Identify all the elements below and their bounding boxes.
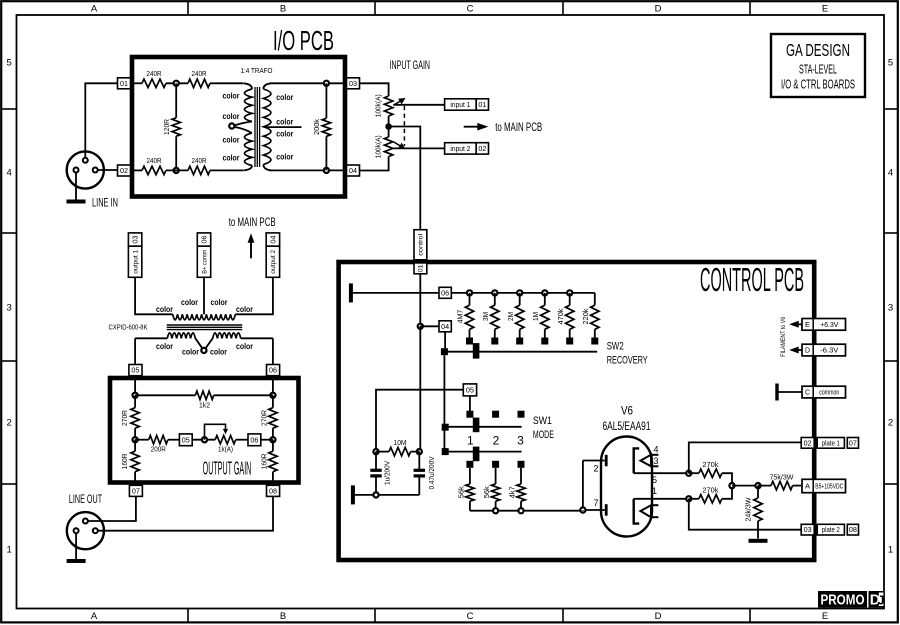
svg-text:color: color	[276, 152, 294, 162]
wire secondary top to 03	[270, 82, 347, 84]
svg-text:color: color	[276, 129, 294, 139]
wire 08 to LINE OUT	[98, 496, 273, 530]
svg-text:1k(A): 1k(A)	[218, 445, 233, 454]
svg-text:06: 06	[269, 368, 277, 375]
wire secondary bottom to 04	[270, 169, 347, 171]
SW1 position label 1	[467, 433, 474, 447]
color label t3	[211, 297, 229, 307]
wire 200R to 05box	[168, 439, 180, 441]
svg-text:4: 4	[7, 167, 12, 178]
svg-text:04: 04	[441, 324, 449, 331]
svg-text:160R: 160R	[259, 453, 268, 470]
switch SW1 row2 line	[444, 451, 521, 453]
connector 07	[129, 485, 142, 496]
svg-text:220k: 220k	[581, 308, 590, 324]
PROMO DJ logo	[818, 591, 885, 609]
svg-text:E: E	[822, 4, 828, 15]
connector D -6.3V	[789, 344, 845, 356]
svg-text:color: color	[236, 304, 254, 314]
color label 4	[223, 153, 241, 163]
wire pots to control	[389, 127, 421, 230]
color label 3	[223, 134, 241, 144]
node og top-right	[270, 393, 275, 398]
color label 7	[276, 129, 294, 139]
transformer T2 label	[109, 322, 148, 331]
tube V6 envelope	[601, 437, 652, 537]
svg-text:B: B	[280, 4, 286, 15]
svg-text:03: 03	[349, 81, 357, 88]
resistor 240R (4)	[188, 156, 210, 174]
svg-text:4k7: 4k7	[507, 486, 516, 498]
svg-text:08: 08	[849, 527, 857, 534]
tube V6 diode bottom chevron	[641, 505, 659, 517]
FILAMENT to V6 label	[780, 316, 787, 356]
svg-text:270k: 270k	[702, 460, 718, 469]
svg-text:color: color	[211, 297, 229, 307]
svg-text:200k: 200k	[312, 119, 321, 135]
CONTROL PCB board outline	[339, 262, 815, 560]
svg-text:270R: 270R	[120, 409, 129, 426]
resistor 270k (bottom)	[689, 486, 732, 503]
node rail 56k2	[493, 508, 498, 513]
transformer T2 primary winding	[173, 314, 236, 320]
svg-text:-6.3V: -6.3V	[820, 348, 838, 355]
wire 01 down	[419, 274, 421, 327]
switch SW1 contact A2	[492, 411, 499, 418]
resistor 10M	[389, 438, 411, 456]
gang dashed link	[403, 106, 405, 146]
svg-text:100k(A): 100k(A)	[375, 94, 382, 117]
switch SW1 contact B3	[518, 461, 525, 468]
wire 120R top	[175, 83, 177, 118]
svg-text:plate 2: plate 2	[822, 527, 840, 534]
LINE OUT label	[69, 494, 102, 506]
connector 04 (control)	[439, 321, 451, 332]
node T2 secondary center tap	[201, 348, 206, 353]
svg-text:7: 7	[593, 498, 598, 508]
resistor 75k/3W	[758, 473, 801, 490]
wire pot P2 to 04	[360, 157, 389, 171]
to MAIN PCB label (right)	[495, 122, 542, 134]
connector 05 (output gain)	[129, 365, 142, 376]
transformer T1 label	[241, 66, 273, 75]
svg-text:LINE OUT: LINE OUT	[69, 494, 102, 506]
resistor 270k (top)	[689, 460, 732, 486]
svg-text:2: 2	[7, 417, 12, 428]
connector A B5+105VDC	[802, 479, 846, 492]
switch SW1 contact B1	[466, 461, 473, 468]
svg-text:A: A	[91, 4, 98, 15]
svg-text:240R: 240R	[147, 69, 162, 78]
connector input 2	[445, 143, 489, 154]
svg-text:4: 4	[888, 167, 893, 178]
wire R2 to T1 primary top	[210, 82, 244, 84]
wire T2 sec left to 05	[134, 338, 136, 364]
connector 02	[118, 165, 131, 176]
svg-text:2: 2	[493, 433, 500, 447]
SW1 position label 2	[493, 433, 500, 447]
wire LINE IN pin2 to 01	[85, 83, 117, 157]
resistor 1k2	[195, 391, 213, 409]
svg-text:color: color	[181, 297, 199, 307]
wire og top rail	[135, 394, 273, 396]
XLR connector LINE IN	[67, 151, 104, 188]
connector 05 (inner)	[179, 434, 192, 446]
svg-text:05: 05	[131, 368, 139, 375]
wire recovery rail	[451, 292, 595, 294]
svg-text:1:4 TRAFO: 1:4 TRAFO	[241, 66, 273, 75]
svg-text:SW1: SW1	[533, 415, 552, 427]
color label b3	[210, 347, 228, 357]
svg-text:56k: 56k	[482, 486, 491, 498]
wire 01 to R1	[131, 82, 143, 84]
potentiometer 1k(A)	[205, 424, 236, 453]
svg-text:05: 05	[466, 387, 474, 394]
svg-text:C: C	[467, 611, 474, 622]
color label 8	[276, 152, 294, 162]
resistor 56k (1)	[457, 468, 475, 511]
node plate2 junction	[686, 496, 691, 501]
transformer T1 primary winding	[235, 83, 253, 170]
resistor 4M7	[456, 293, 474, 338]
resistor 120R	[162, 118, 180, 136]
capacitor 1u/200V	[370, 452, 391, 495]
svg-text:color: color	[156, 304, 174, 314]
svg-text:1: 1	[7, 544, 12, 555]
svg-text:4M7: 4M7	[456, 310, 465, 324]
svg-text:B+ comm: B+ comm	[201, 250, 208, 274]
switch SW2 pole square	[441, 348, 448, 355]
svg-text:1u/200V: 1u/200V	[384, 461, 391, 485]
resistor 270R right	[259, 395, 277, 439]
tube V6 anode bracket top	[634, 448, 640, 473]
connector 04	[347, 165, 360, 176]
wire output1 to T2	[135, 277, 173, 314]
title block GA DESIGN	[771, 34, 865, 97]
node rail 1M	[542, 290, 547, 295]
resistor 24k/3W	[746, 486, 763, 539]
potentiometer 100k(A) P2	[375, 135, 405, 158]
XLR connector LINE OUT	[67, 512, 104, 549]
node rail 4M7	[467, 290, 472, 295]
I/O PCB title	[273, 25, 334, 56]
connector 03	[347, 78, 360, 89]
svg-text:07: 07	[132, 488, 140, 495]
svg-text:input 2: input 2	[450, 146, 470, 153]
connector 05 (control)	[463, 384, 476, 396]
node rail 4k7	[518, 508, 523, 513]
svg-text:02: 02	[120, 168, 128, 175]
svg-text:V6: V6	[621, 406, 633, 418]
svg-text:06: 06	[250, 437, 258, 444]
resistor 200R	[149, 436, 168, 454]
node pot junction	[385, 123, 392, 130]
wire 10M right stub	[411, 451, 420, 453]
switch SW2 contact 4M7	[466, 338, 473, 345]
connector 03 plate 2 08	[801, 524, 858, 535]
switch SW1 row1 line	[444, 426, 521, 428]
svg-text:C: C	[805, 390, 810, 397]
svg-text:270k: 270k	[702, 486, 718, 495]
wire output2 to T2	[235, 277, 273, 314]
svg-text:color: color	[223, 134, 241, 144]
resistor 4k7	[507, 468, 525, 511]
color label b1	[156, 341, 174, 351]
svg-text:1k2: 1k2	[199, 400, 210, 409]
svg-text:1: 1	[652, 486, 657, 496]
color label 2	[223, 111, 241, 121]
wire 06box to mid-right	[261, 439, 273, 441]
wire B+comm to T2 tap	[203, 277, 205, 314]
svg-text:B: B	[280, 611, 286, 622]
svg-text:LINE IN: LINE IN	[92, 198, 118, 210]
color label b2	[182, 347, 200, 357]
svg-text:E: E	[822, 611, 828, 622]
node top-left junction	[174, 81, 179, 86]
svg-text:3M: 3M	[481, 312, 490, 321]
svg-text:SW2: SW2	[607, 340, 624, 352]
svg-text:CONTROL PCB: CONTROL PCB	[700, 261, 804, 298]
svg-text:75k/3W: 75k/3W	[770, 473, 795, 482]
ground 24k	[749, 539, 768, 543]
color label t2	[181, 297, 199, 307]
wire 270k join to B5 node	[732, 485, 758, 487]
svg-text:3: 3	[517, 433, 524, 447]
svg-text:240R: 240R	[192, 69, 207, 78]
svg-text:color: color	[223, 91, 241, 101]
node 10M left	[373, 449, 378, 454]
switch SW1 row2 bridge	[473, 447, 480, 462]
svg-text:2: 2	[593, 464, 598, 474]
switch SW1 contact A3	[518, 411, 525, 418]
svg-text:FILAMENT to V6: FILAMENT to V6	[780, 316, 787, 356]
connector input 1	[445, 99, 489, 110]
color label b4	[236, 341, 254, 351]
potentiometer 100k(A) P1	[375, 94, 405, 117]
wire 10M left stub	[376, 451, 389, 453]
resistor 200k	[312, 83, 331, 170]
svg-text:240R: 240R	[192, 156, 207, 165]
svg-text:4: 4	[653, 445, 658, 455]
switch SW2 wiper bridge	[473, 343, 480, 359]
wire 05 feed	[376, 390, 463, 452]
wire cathodes link	[582, 461, 584, 511]
color label 1	[223, 91, 241, 101]
to MAIN PCB arrow (right)	[464, 123, 489, 131]
svg-text:color: color	[210, 347, 228, 357]
ground caps	[351, 485, 419, 504]
node og mid-right	[270, 437, 275, 442]
OUTPUT GAIN board outline	[110, 378, 299, 483]
svg-text:5: 5	[7, 57, 12, 68]
wire 06 into board	[272, 376, 274, 396]
transformer T1 secondary winding	[263, 83, 271, 170]
svg-text:200R: 200R	[151, 445, 166, 454]
svg-text:C: C	[467, 4, 474, 15]
switch SW2 contact 470k	[566, 338, 573, 345]
svg-text:01: 01	[478, 102, 486, 109]
transformer T2 core	[167, 325, 243, 330]
node 04 junction	[418, 324, 423, 329]
svg-text:D: D	[655, 611, 662, 622]
pin 4 label	[653, 445, 658, 455]
svg-text:to MAIN PCB: to MAIN PCB	[229, 217, 276, 229]
svg-text:3: 3	[7, 302, 12, 313]
svg-text:5: 5	[888, 57, 893, 68]
to MAIN PCB up arrow	[248, 233, 255, 258]
wire control to 10M node	[419, 326, 421, 451]
V6 label	[603, 406, 651, 433]
svg-text:output 1: output 1	[132, 249, 139, 273]
svg-text:01: 01	[418, 264, 425, 272]
svg-text:07: 07	[849, 440, 857, 447]
switch SW2 contact 2M	[516, 338, 523, 345]
wire 04 stub	[420, 325, 439, 327]
wire 05box to pot	[192, 439, 215, 441]
node bottom-left junction	[174, 168, 179, 173]
node pin7 junction	[580, 507, 585, 512]
ground LINE OUT	[67, 533, 86, 563]
wire plate2 riser	[689, 499, 801, 530]
resistor 56k (2)	[482, 468, 500, 511]
svg-text:color: color	[223, 153, 241, 163]
svg-text:470k: 470k	[556, 308, 565, 324]
wire T2 sec right to 06	[272, 338, 274, 364]
svg-text:1: 1	[888, 544, 893, 555]
svg-text:A: A	[91, 611, 98, 622]
svg-text:08: 08	[269, 488, 277, 495]
svg-text:color: color	[236, 341, 254, 351]
svg-text:2M: 2M	[506, 312, 515, 321]
I/O PCB board outline	[132, 57, 345, 197]
svg-text:color: color	[223, 111, 241, 121]
node cap rail	[373, 492, 378, 497]
node og top-left	[133, 393, 138, 398]
node og mid-left	[133, 437, 138, 442]
connector 06 (control)	[439, 287, 451, 298]
svg-text:D: D	[805, 348, 810, 355]
svg-text:MODE: MODE	[533, 429, 554, 441]
svg-text:02: 02	[478, 146, 486, 153]
node secondary top junction	[324, 81, 329, 86]
transformer T1 core	[255, 87, 260, 167]
node 270k join	[729, 483, 734, 488]
svg-text:input 1: input 1	[450, 102, 470, 109]
tube V6 cathode pin 2	[583, 455, 606, 474]
LINE IN label	[92, 198, 118, 210]
wire SW1 rail to pin7	[582, 509, 584, 512]
svg-text:output 2: output 2	[270, 249, 277, 273]
svg-text:color: color	[156, 341, 174, 351]
switch SW1 pole row2	[442, 448, 449, 455]
resistor 1M	[531, 293, 549, 338]
svg-text:04: 04	[349, 168, 357, 175]
pin 1 label	[652, 486, 657, 496]
wire P2 wiper to input 2	[393, 147, 444, 149]
wire R4 to T1 primary bottom	[210, 169, 244, 171]
node rail 2M	[517, 290, 522, 295]
wire R1 to R2	[166, 82, 188, 84]
node rail 3M	[492, 290, 497, 295]
wire pin 5	[634, 472, 689, 474]
wire 07 to LINE OUT	[88, 496, 136, 521]
connector B+ comm / 06	[197, 233, 210, 277]
color label 6	[276, 116, 294, 126]
to MAIN PCB label (left)	[229, 217, 276, 229]
svg-text:02: 02	[804, 440, 812, 447]
resistor 270R left	[120, 395, 139, 439]
svg-text:10M: 10M	[394, 438, 407, 447]
resistor 220k	[581, 293, 599, 338]
node secondary bottom junction	[324, 168, 329, 173]
INPUT GAIN label	[390, 58, 431, 72]
tube V6 anode bracket bottom	[634, 499, 640, 524]
wire LINE IN pin3 to 02	[98, 169, 118, 171]
resistor 240R (1)	[142, 69, 166, 87]
svg-text:240R: 240R	[147, 156, 162, 165]
svg-text:04: 04	[270, 235, 277, 243]
ground LINE IN	[67, 173, 86, 204]
switch SW2 contact 1M	[541, 338, 548, 345]
ground top-left	[349, 283, 439, 302]
resistor 470k	[556, 293, 574, 338]
svg-text:05: 05	[182, 437, 190, 444]
svg-text:1M: 1M	[531, 312, 540, 321]
svg-text:6AL5/EAA91: 6AL5/EAA91	[603, 421, 651, 433]
connector C common	[775, 384, 845, 401]
svg-text:J: J	[878, 594, 885, 608]
svg-text:color: color	[276, 116, 294, 126]
svg-text:120R: 120R	[162, 118, 171, 135]
connector 01	[118, 78, 131, 89]
svg-text:2: 2	[888, 417, 893, 428]
svg-text:5: 5	[652, 475, 657, 485]
resistor 2M	[506, 293, 524, 338]
svg-text:I/O PCB: I/O PCB	[273, 25, 334, 56]
switch SW2 wiper line	[444, 351, 597, 353]
switch SW1 contact B2	[492, 461, 499, 468]
svg-text:A: A	[805, 484, 810, 491]
node og pot-left	[202, 437, 207, 442]
svg-text:control: control	[418, 233, 425, 256]
svg-text:24k/3W: 24k/3W	[746, 497, 753, 521]
svg-text:STA-LEVEL: STA-LEVEL	[799, 63, 837, 77]
switch SW1 pole row1	[442, 424, 449, 431]
wire plate1 riser	[689, 442, 801, 473]
wire P1 wiper to input 1	[393, 104, 444, 106]
connector output 2 / 04	[266, 233, 279, 277]
svg-text:160R: 160R	[120, 453, 129, 470]
connector control / 01	[414, 230, 427, 274]
svg-text:06: 06	[441, 290, 449, 297]
SW2 RECOVERY label	[607, 340, 648, 366]
connector 06 (inner)	[248, 434, 261, 446]
node 10M right	[417, 449, 422, 454]
wire mid-left to 200R	[135, 439, 149, 441]
wire pin 1	[634, 498, 689, 500]
OUTPUT GAIN label	[203, 458, 252, 478]
node plate1 junction	[686, 471, 691, 476]
resistor 3M	[481, 293, 499, 338]
connector 02 plate 1 07	[801, 438, 858, 449]
node B5 junction	[755, 483, 760, 488]
resistor 160R left	[120, 440, 139, 483]
svg-text:common: common	[819, 390, 839, 397]
svg-text:56k: 56k	[457, 486, 466, 498]
node rail 470k	[567, 290, 572, 295]
capacitor 0.47u/200V	[414, 452, 437, 495]
SW1 MODE label	[533, 415, 554, 441]
